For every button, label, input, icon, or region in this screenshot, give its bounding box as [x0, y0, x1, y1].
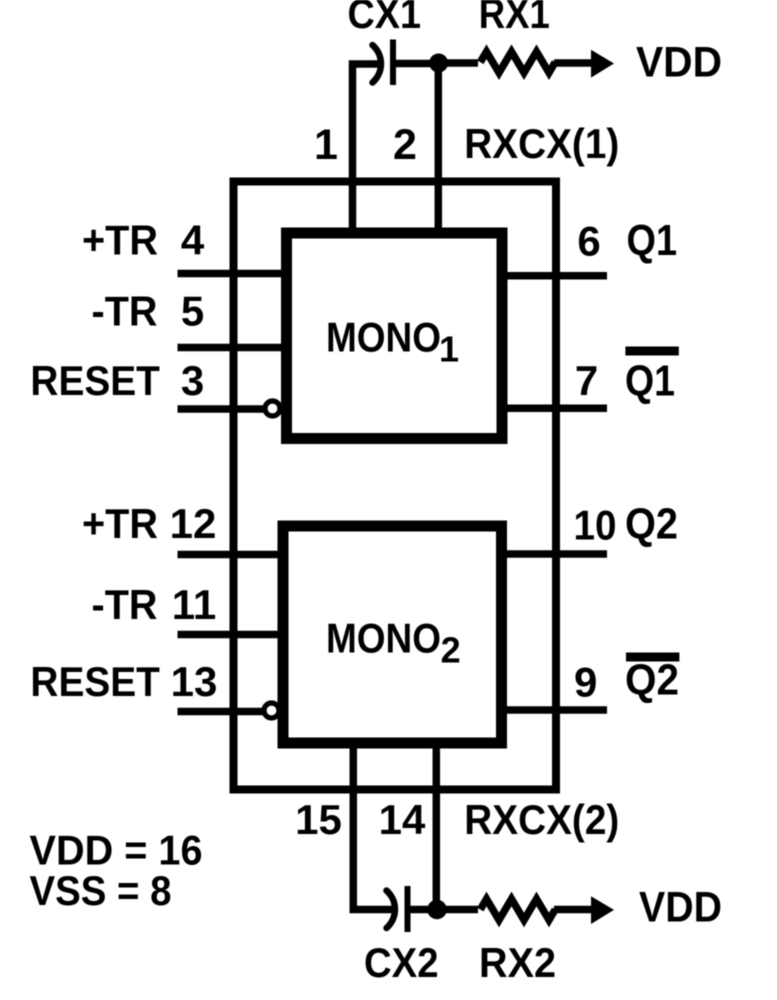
svg-text:VDD: VDD — [636, 39, 722, 87]
wire pin 9 — [505, 706, 607, 714]
junction node A (pin 2 net) — [429, 54, 448, 73]
capacitor CX1 — [373, 40, 394, 86]
svg-text:RXCX(2): RXCX(2) — [464, 796, 619, 843]
wire pin 6 — [505, 272, 607, 280]
wire RX2 to arrow — [554, 906, 592, 914]
svg-text:RESET: RESET — [30, 658, 160, 705]
wire pin 1 riser — [353, 64, 381, 229]
IC package outline — [234, 182, 557, 790]
wire pin 15 drop — [353, 747, 393, 910]
svg-text:VDD: VDD — [639, 884, 722, 932]
capacitor CX2 — [387, 886, 408, 932]
svg-text:+TR: +TR — [82, 217, 158, 264]
svg-text:CX2: CX2 — [364, 939, 439, 986]
svg-text:RX1: RX1 — [479, 0, 550, 37]
svg-text:-TR: -TR — [92, 288, 158, 335]
overline for Q1-bar — [625, 347, 678, 356]
wire pin 10 — [505, 550, 607, 558]
svg-text:11: 11 — [172, 581, 216, 628]
svg-text:10: 10 — [574, 502, 617, 549]
svg-text:RXCX(1): RXCX(1) — [464, 120, 619, 167]
wire pin 13 — [178, 708, 264, 716]
svg-text:4: 4 — [181, 217, 205, 264]
wire pin 11 — [178, 631, 284, 639]
svg-text:1: 1 — [314, 121, 338, 169]
svg-text:+TR: +TR — [82, 500, 158, 547]
svg-text:14: 14 — [379, 796, 426, 843]
wire pin 12 — [178, 551, 284, 559]
svg-text:9: 9 — [574, 659, 597, 706]
svg-text:Q2: Q2 — [625, 656, 679, 705]
overline for Q2-bar — [626, 653, 679, 662]
reset bubble MONO1 — [265, 401, 280, 416]
svg-text:VSS = 8: VSS = 8 — [30, 867, 172, 914]
svg-text:Q1: Q1 — [625, 357, 675, 406]
mono block MONO1 — [287, 233, 503, 439]
svg-text:2: 2 — [441, 630, 461, 671]
wire RX1 to arrow — [554, 59, 592, 67]
svg-text:3: 3 — [181, 357, 204, 404]
svg-text:5: 5 — [181, 288, 204, 335]
arrow to VDD (bottom) — [591, 896, 614, 924]
resistor RX1 — [480, 52, 555, 73]
svg-text:12: 12 — [170, 500, 217, 547]
wire pin 7 — [505, 404, 607, 412]
svg-text:-TR: -TR — [92, 581, 158, 628]
svg-text:Q1: Q1 — [627, 216, 678, 265]
wire CX1 to node A — [393, 60, 440, 68]
svg-text:1: 1 — [439, 329, 459, 370]
wire pin 5 — [178, 344, 284, 352]
svg-text:MONO: MONO — [326, 314, 441, 361]
reset bubble MONO2 — [264, 703, 279, 718]
svg-text:7: 7 — [575, 357, 598, 404]
svg-text:6: 6 — [577, 218, 600, 265]
junction node B (pin 14 net) — [427, 900, 447, 920]
svg-text:2: 2 — [393, 121, 417, 169]
svg-text:Q2: Q2 — [625, 500, 678, 549]
wire pin 3 — [178, 405, 265, 413]
arrow to VDD (top) — [591, 50, 614, 78]
svg-text:RESET: RESET — [30, 357, 160, 404]
wire node A to RX1 — [439, 59, 478, 67]
svg-text:CX1: CX1 — [348, 0, 422, 37]
wire node B to RX2 — [437, 906, 478, 914]
resistor RX2 — [480, 899, 555, 920]
svg-text:13: 13 — [171, 658, 218, 705]
wire pin 4 — [178, 270, 284, 278]
wire CX2 to node B — [408, 906, 441, 914]
svg-text:15: 15 — [295, 796, 342, 843]
wire pin 2 drop — [435, 63, 443, 229]
svg-text:RX2: RX2 — [479, 939, 556, 986]
mono block MONO2 — [283, 526, 502, 743]
svg-text:MONO: MONO — [326, 615, 441, 662]
wire pin 14 drop — [433, 747, 441, 910]
